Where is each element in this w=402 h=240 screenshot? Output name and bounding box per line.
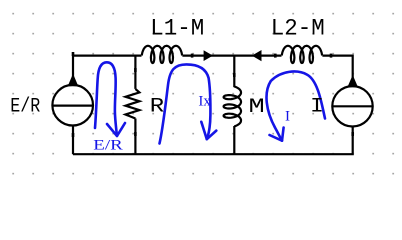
- svg-text:M: M: [248, 96, 264, 119]
- svg-text:E/R: E/R: [93, 137, 123, 153]
- svg-text:E/R: E/R: [10, 95, 40, 118]
- svg-text:L1-M: L1-M: [150, 16, 204, 42]
- svg-text:Ix: Ix: [198, 93, 211, 109]
- svg-text:I: I: [285, 109, 290, 125]
- svg-text:I: I: [310, 95, 324, 119]
- svg-text:R: R: [150, 94, 164, 118]
- svg-text:L2-M: L2-M: [271, 16, 325, 42]
